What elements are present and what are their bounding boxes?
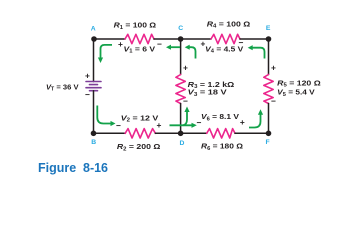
wire R1 to C (154, 38, 211, 40)
svg-text:−: − (197, 118, 202, 128)
svg-text:+: + (183, 62, 188, 72)
svg-text:−: − (183, 96, 188, 106)
svg-text:+: + (85, 70, 90, 80)
svg-text:F: F (266, 139, 270, 146)
svg-text:A: A (91, 26, 96, 33)
node D junction dot (178, 131, 184, 137)
svg-text:+: + (240, 117, 245, 127)
current arrow left of node C (left) (166, 45, 180, 50)
svg-text:+: + (271, 62, 276, 72)
wire R6 to F (235, 132, 269, 134)
current arrow at node A (down) (98, 45, 112, 63)
wire B to R2 (94, 132, 126, 134)
wire battery bottom to B (93, 91, 95, 134)
node F junction dot (266, 131, 272, 137)
resistor R1 (125, 34, 154, 43)
wire R2 to D (155, 132, 206, 134)
svg-text:C: C (178, 25, 183, 32)
svg-text:B: B (91, 139, 96, 146)
wire top A to R1 (94, 38, 125, 40)
node E junction dot (266, 36, 272, 42)
node C junction dot (178, 36, 184, 42)
wire E to R5 (268, 39, 270, 75)
wire C to R3 (180, 39, 182, 75)
svg-text:−: − (85, 89, 90, 99)
current arrow right of node C (up-then-left) (185, 45, 196, 59)
svg-text:Figure 8-16: Figure 8-16 (38, 160, 108, 175)
node A junction dot (91, 36, 97, 42)
resistor R6 (207, 129, 235, 138)
svg-text:V3 = 18 V: V3 = 18 V (188, 88, 227, 98)
resistor R2 (125, 129, 155, 138)
current arrow at node D (right) (170, 123, 197, 128)
wire R3 to D (180, 104, 182, 134)
resistor R3 (176, 75, 185, 104)
current arrow at node B (down-then-right) (97, 106, 115, 127)
svg-text:−: − (239, 38, 244, 48)
svg-text:−: − (157, 39, 162, 49)
wire R4 to E (240, 38, 269, 40)
svg-text:+: + (157, 120, 162, 130)
battery VT plates (86, 82, 101, 91)
resistor R5 (264, 75, 273, 104)
svg-text:V2 = 12 V: V2 = 12 V (121, 113, 159, 123)
svg-text:VT = 36 V: VT = 36 V (46, 82, 79, 92)
svg-text:E: E (266, 25, 271, 32)
svg-text:D: D (180, 140, 185, 147)
node B junction dot (91, 131, 97, 137)
wire A to battery top (93, 39, 95, 82)
svg-text:V1 = 6 V: V1 = 6 V (124, 44, 156, 54)
resistor R4 (211, 34, 240, 43)
svg-text:−: − (116, 120, 121, 130)
svg-text:+: + (118, 39, 123, 49)
current arrow at node E (up-then-left) (248, 45, 265, 58)
svg-text:−: − (271, 96, 276, 106)
current arrow at node D (branch up) (183, 107, 190, 126)
wire R5 to F (268, 104, 270, 134)
current arrow at node F (right-then-up) (249, 109, 263, 127)
